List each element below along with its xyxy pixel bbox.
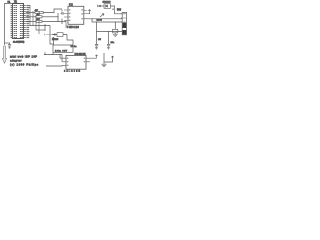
- wire to IC3 pin3: [46, 64, 62, 67]
- signal arrow up: [52, 37, 54, 40]
- wire row y12.6: [26, 12, 35, 14]
- wire D1 to connector: [111, 6, 122, 14]
- X1 internal pins left column: [14, 6, 16, 38]
- wire from R1 to IC2: [43, 9, 62, 13]
- X1 pin numbers left: [11, 5, 13, 38]
- arrow logo bottom left: [2, 46, 6, 63]
- svg-text:mini web ISP 10P: mini web ISP 10P: [10, 55, 37, 59]
- wire y31.5 lower: [97, 31, 123, 33]
- bottom right hook: [104, 53, 113, 62]
- wire from D2 down to box: [67, 35, 73, 46]
- connector K2 right edge: [122, 12, 126, 34]
- X1 right pin stubs: [24, 6, 26, 38]
- capacitor C5 chain: [95, 22, 98, 46]
- IC3 left pins: [62, 62, 66, 66]
- X1 right pin labels: [26, 5, 29, 38]
- capacitor C3 at IC2 left: [61, 12, 64, 15]
- svg-text:adapter: adapter: [10, 59, 22, 63]
- capacitor C6 chain: [107, 32, 110, 46]
- resistor R3: [36, 20, 42, 22]
- IC2 left pins: [64, 10, 68, 28]
- IC3: [66, 55, 86, 69]
- crystal Q1: [114, 22, 116, 29]
- svg-text:5V6: 5V6: [117, 9, 122, 11]
- svg-text:74HC126: 74HC126: [67, 27, 80, 29]
- wire left loop top: [5, 4, 13, 46]
- svg-text:X1: X1: [14, 0, 18, 3]
- IC3 pin numbers: [67, 58, 85, 66]
- signal arrow on wire: [100, 14, 104, 18]
- IC3 right pins: [86, 58, 97, 62]
- wire y54.5: [44, 52, 66, 62]
- wire row y21.4: [26, 20, 36, 22]
- IC2 pin numbers: [69, 9, 83, 21]
- vcc arrow at IC2 pin: [88, 9, 90, 13]
- wire IC2 to right bus: [92, 19, 122, 22]
- X1 internal pins right column: [20, 6, 22, 38]
- resistor R1 pair: [35, 12, 39, 14]
- svg-text:IC2: IC2: [69, 4, 73, 7]
- X1 inner pin numbers: [16, 5, 23, 38]
- svg-text:1N4148: 1N4148: [103, 2, 112, 4]
- wire stub bottom left: [5, 42, 11, 44]
- svg-text:22-25(GND): 22-25(GND): [13, 41, 25, 43]
- wire y18 to connector: [97, 18, 122, 20]
- diode D1 top right: [101, 5, 105, 7]
- svg-text:MOSI: MOSI: [97, 19, 103, 21]
- connector X1: [13, 4, 24, 39]
- IC2: [68, 6, 84, 24]
- diode D2 with arrow: [52, 34, 67, 36]
- svg-text:(c) 1999 Philips: (c) 1999 Philips: [10, 62, 39, 66]
- IC2 right pins: [84, 11, 97, 19]
- svg-text:C8 1n: C8 1n: [71, 46, 78, 48]
- wire row y30: [36, 29, 45, 31]
- svg-text:C5: C5: [98, 39, 102, 41]
- resistor R2: [36, 16, 42, 18]
- svg-text:100n 63V: 100n 63V: [55, 51, 68, 53]
- svg-text:10u: 10u: [111, 42, 115, 44]
- wire row y25.5: [30, 25, 50, 27]
- vcc arrow at IC3 out: [95, 55, 97, 58]
- capacitor C2 to ground: [8, 43, 11, 49]
- svg-text:K1: K1: [8, 1, 11, 3]
- wire row y16.8: [26, 16, 36, 18]
- box K3 mid bottom: [53, 45, 73, 52]
- bus verticals right of X1: [30, 5, 39, 34]
- svg-text:24LC16B: 24LC16B: [64, 71, 80, 72]
- svg-text:IC3 93C46: IC3 93C46: [75, 53, 87, 56]
- mid junction cluster: [45, 13, 62, 44]
